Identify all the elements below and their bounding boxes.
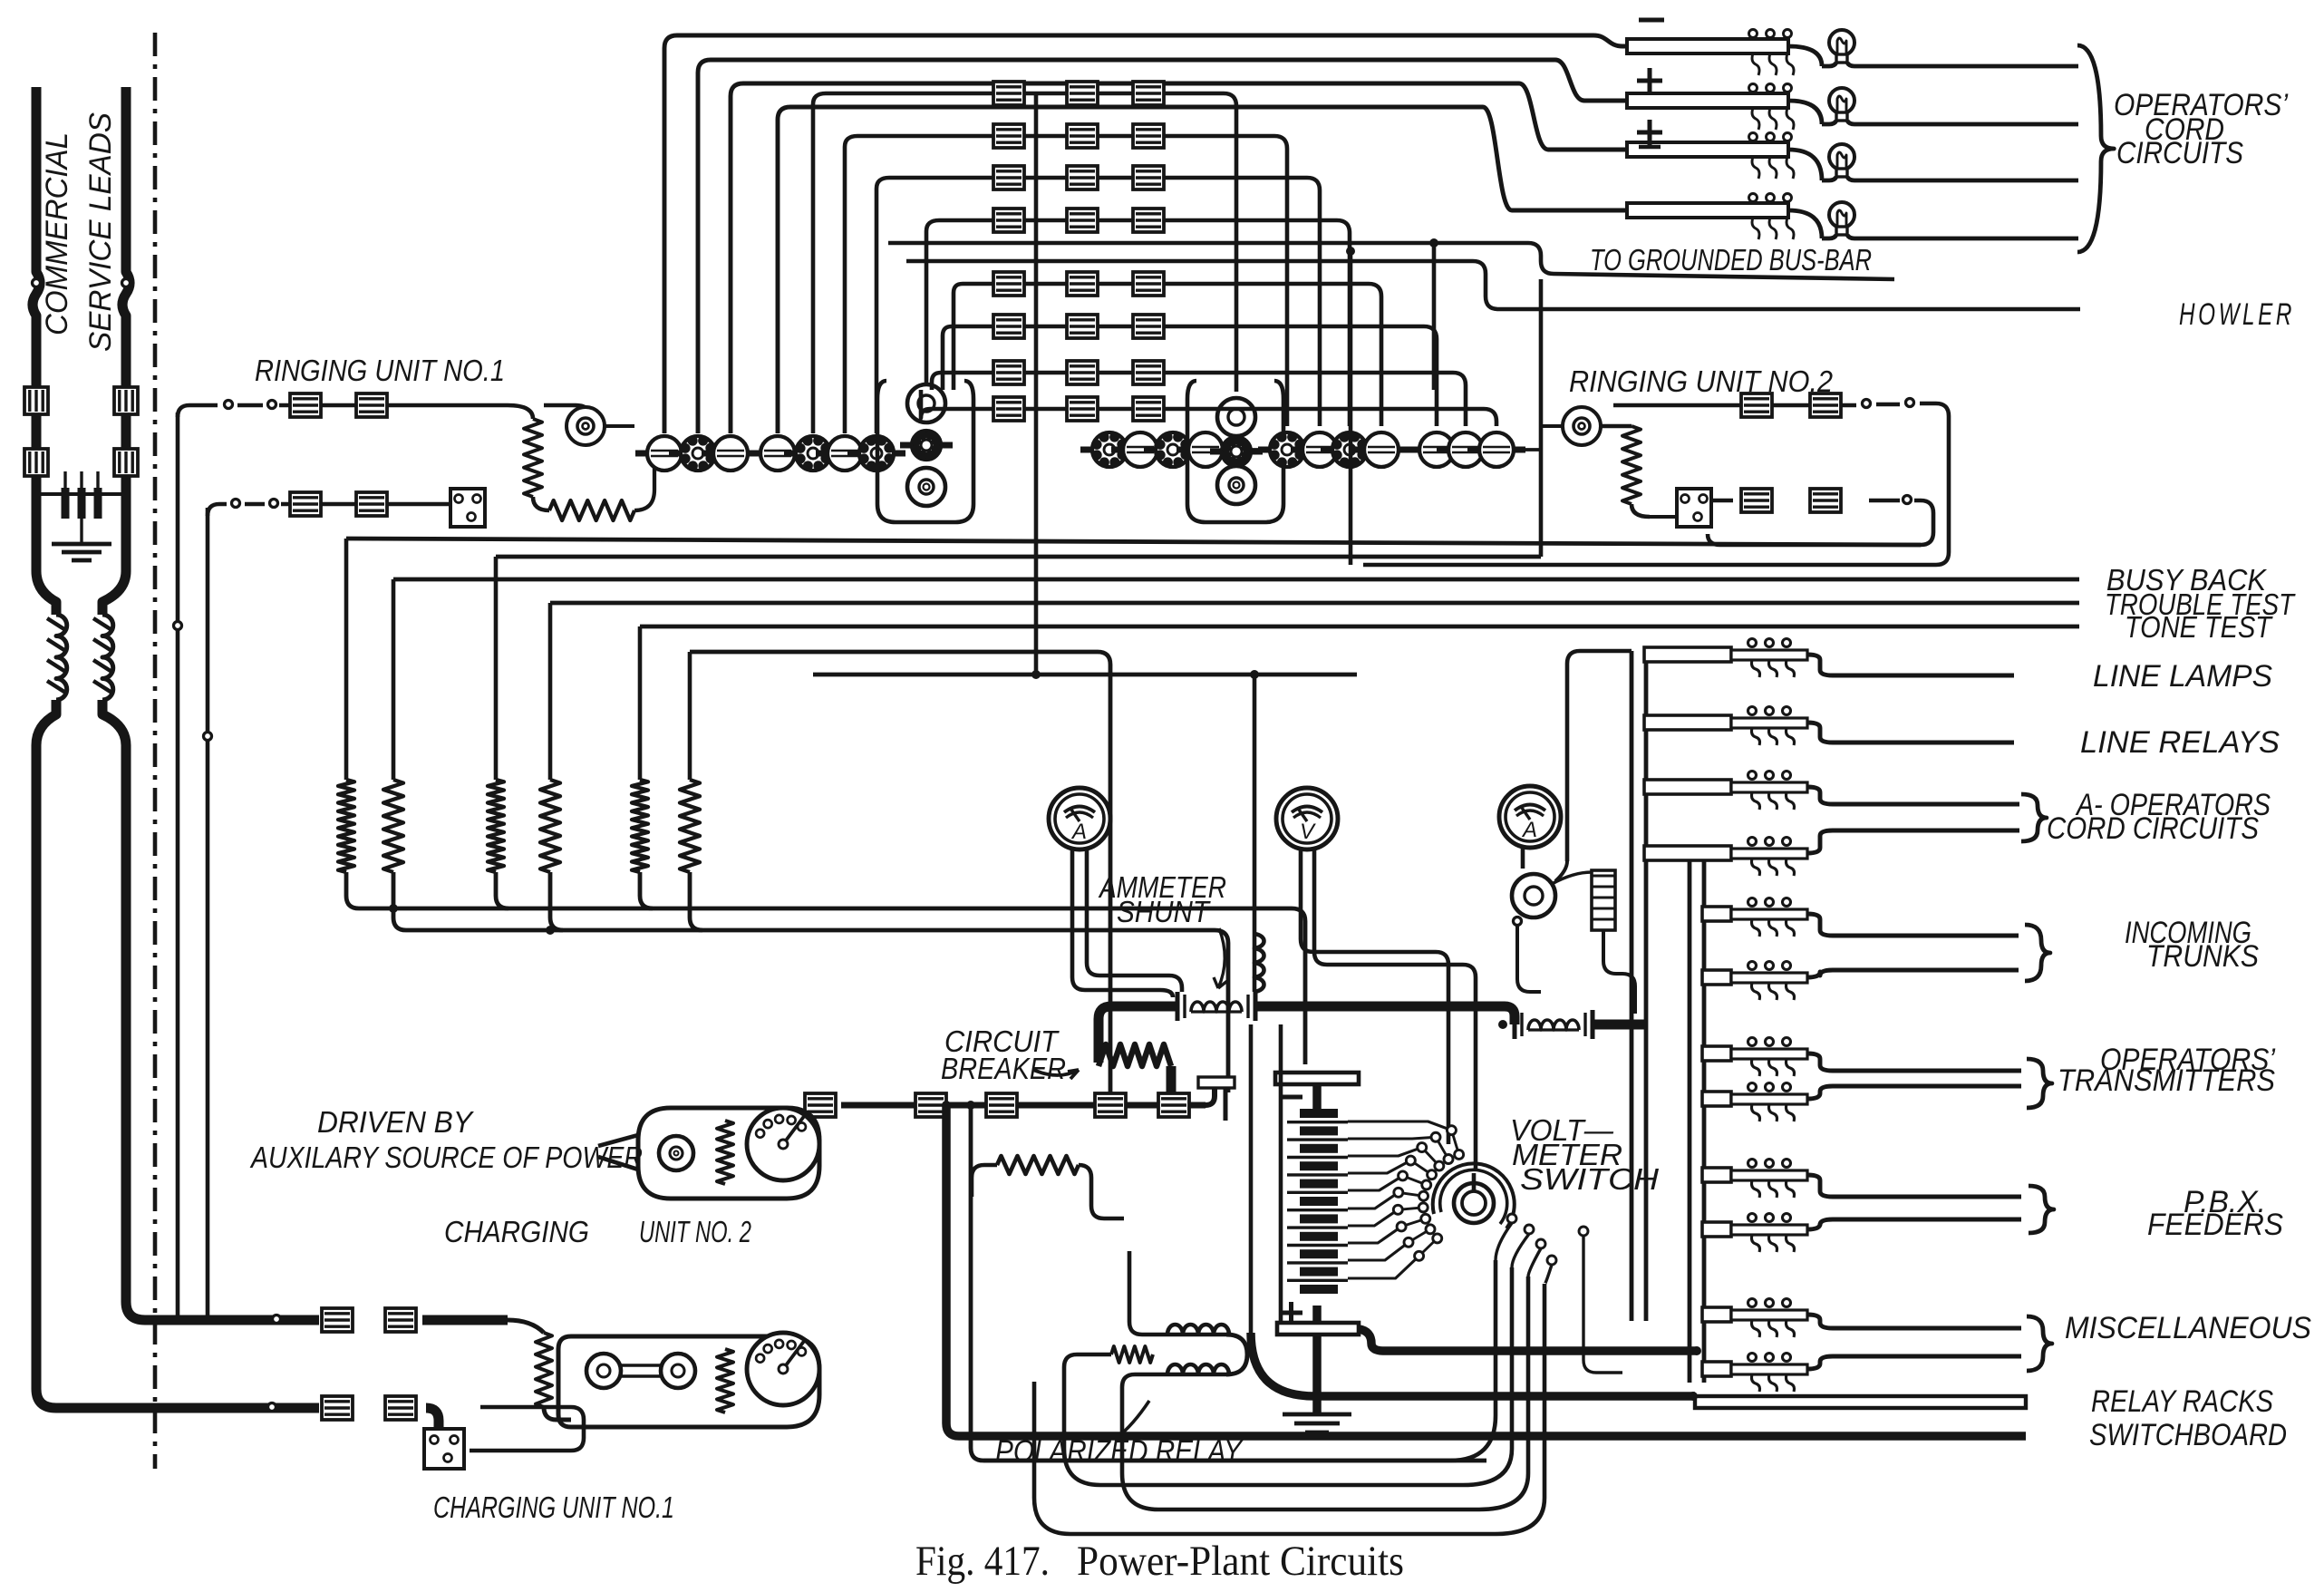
svg-text:CIRCUITS: CIRCUITS	[2116, 136, 2243, 170]
svg-text:Power-Plant Circuits: Power-Plant Circuits	[1077, 1538, 1404, 1585]
svg-text:HOWLER: HOWLER	[2179, 297, 2295, 332]
svg-text:LINE LAMPS: LINE LAMPS	[2093, 659, 2272, 694]
svg-text:TRUNKS: TRUNKS	[2146, 939, 2259, 974]
svg-text:A: A	[1521, 818, 1537, 842]
svg-text:A: A	[1070, 820, 1087, 844]
svg-text:V: V	[1300, 820, 1316, 844]
svg-text:FEEDERS: FEEDERS	[2147, 1208, 2283, 1242]
svg-text:TO GROUNDED BUS-BAR: TO GROUNDED BUS-BAR	[1590, 243, 1872, 277]
svg-text:CHARGING: CHARGING	[444, 1215, 589, 1248]
svg-text:SHUNT: SHUNT	[1117, 895, 1212, 928]
svg-text:TRANSMITTERS: TRANSMITTERS	[2058, 1063, 2275, 1098]
svg-text:CORD CIRCUITS: CORD CIRCUITS	[2047, 811, 2259, 846]
svg-text:AUXILARY SOURCE OF POWER: AUXILARY SOURCE OF POWER	[249, 1141, 643, 1174]
svg-text:SERVICE LEADS: SERVICE LEADS	[83, 112, 118, 352]
svg-text:DRIVEN BY: DRIVEN BY	[317, 1105, 474, 1139]
svg-text:CHARGING UNIT NO.1: CHARGING UNIT NO.1	[433, 1490, 674, 1524]
svg-text:RINGING UNIT NO.1: RINGING UNIT NO.1	[255, 354, 505, 387]
svg-text:SWITCH: SWITCH	[1520, 1162, 1659, 1196]
svg-text:SWITCHBOARD: SWITCHBOARD	[2089, 1418, 2287, 1452]
svg-text:Fig. 417.: Fig. 417.	[915, 1538, 1050, 1585]
svg-text:RINGING UNIT NO.2: RINGING UNIT NO.2	[1569, 364, 1833, 398]
svg-text:TONE TEST: TONE TEST	[2125, 610, 2273, 644]
svg-text:BREAKER: BREAKER	[941, 1052, 1066, 1085]
svg-text:UNIT NO. 2: UNIT NO. 2	[639, 1215, 751, 1248]
svg-text:MISCELLANEOUS: MISCELLANEOUS	[2065, 1311, 2311, 1345]
svg-text:RELAY RACKS: RELAY RACKS	[2091, 1384, 2273, 1419]
svg-text:COMMERCIAL: COMMERCIAL	[40, 132, 74, 335]
svg-text:LINE RELAYS: LINE RELAYS	[2080, 725, 2280, 760]
